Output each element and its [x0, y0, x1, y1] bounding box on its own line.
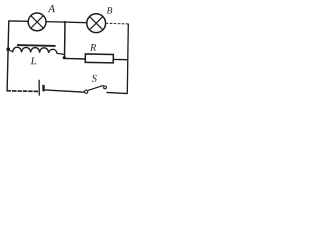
wire bottom-left (slightly broken in scan): [7, 90, 39, 93]
wire coil tail to middle vertical: [57, 53, 65, 54]
label S: [92, 75, 97, 82]
wire A to junction to lamp B: [46, 22, 87, 23]
wire top-left segment: [8, 20, 28, 22]
wire lead from junction to coil: [9, 50, 14, 53]
wire B to top-right corner (faint dashed in scan): [106, 22, 129, 25]
label R: [90, 44, 96, 51]
switch contact circle: [104, 86, 107, 89]
wire left border: [7, 21, 9, 92]
label A: [48, 5, 55, 12]
resistor R box: [85, 54, 113, 63]
node junction dot on left border: [6, 47, 10, 51]
label B: [107, 7, 113, 13]
wire right border: [127, 24, 128, 94]
switch S pivot circle: [85, 90, 88, 93]
wire junction to resistor: [64, 57, 86, 60]
label L: [31, 57, 36, 64]
battery short plate: [42, 85, 44, 92]
node middle vertical wire: [64, 21, 67, 58]
inductor L core bar: [17, 44, 56, 47]
wire switch to bottom-right corner: [106, 92, 127, 93]
wire resistor to right border: [113, 58, 128, 60]
inductor L coil arcs: [13, 47, 57, 53]
lamp B: [87, 14, 106, 33]
node junction dot at bottom of middle vertical: [63, 56, 66, 59]
wire battery to switch: [45, 90, 85, 92]
battery long plate: [38, 80, 40, 96]
lamp A: [28, 13, 46, 31]
switch lever: [88, 85, 104, 90]
